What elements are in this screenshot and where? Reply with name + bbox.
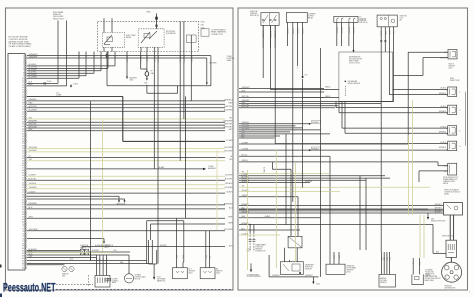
- svg-text:BLK/YEL: BLK/YEL: [145, 56, 147, 63]
- svg-text:BLK: BLK: [84, 56, 86, 59]
- arrow terminal: [126, 77, 128, 80]
- speed sensor shield dash: [344, 86, 346, 97]
- svg-text:BRN/RED: BRN/RED: [29, 203, 38, 205]
- svg-text:WITH SENSOR FOR: WITH SENSOR FOR: [443, 177, 459, 179]
- svg-text:SENSOR: SENSOR: [216, 270, 223, 272]
- fuel injector 4: [448, 141, 457, 150]
- svg-text:BRN/BLU: BRN/BLU: [242, 204, 250, 206]
- svg-text:WHT/YEL: WHT/YEL: [242, 96, 250, 98]
- svg-text:IGNITION/: IGNITION/: [359, 18, 367, 20]
- svg-text:TO MFI: TO MFI: [208, 166, 214, 168]
- wires to right edge group1: [27, 99, 234, 111]
- right page bus group1: [239, 87, 324, 98]
- svg-text:BLK/YEL: BLK/YEL: [182, 56, 184, 63]
- svg-text:WHT/GRY: WHT/GRY: [224, 126, 234, 128]
- svg-text:COIL: COIL: [400, 18, 404, 20]
- iat feeds: [239, 161, 438, 163]
- svg-text:LIL: LIL: [412, 262, 414, 264]
- svg-text:YEL: YEL: [208, 256, 210, 259]
- svg-text:BLK/YEL: BLK/YEL: [139, 56, 141, 63]
- bus single 144: [239, 143, 408, 145]
- ECM pins: [22, 55, 27, 270]
- top terminal box: [334, 16, 368, 46]
- svg-text:WHT/GRY: WHT/GRY: [29, 126, 39, 128]
- svg-text:LIL/WHT: LIL/WHT: [242, 142, 249, 144]
- dashed wire watermark area: [56, 284, 93, 286]
- yellow bottom wire: [27, 252, 111, 254]
- short row 224: [151, 223, 226, 225]
- svg-text:YEL/BLK: YEL/BLK: [225, 183, 233, 185]
- svg-text:RED: RED: [229, 103, 234, 105]
- power stage wires: [449, 215, 451, 240]
- svg-text:SEE POWER: SEE POWER: [349, 61, 360, 63]
- svg-text:GRY/GRN: GRY/GRN: [224, 229, 233, 231]
- ignition switch box: [261, 13, 279, 26]
- distributor feed: [450, 257, 452, 262]
- right page frame: [238, 8, 468, 290]
- svg-text:BLK/YEL: BLK/YEL: [29, 179, 37, 181]
- trunk vertical x210.9: [210, 56, 212, 86]
- svg-text:BRN/WHT: BRN/WHT: [29, 121, 39, 123]
- svg-text:BRN/RED: BRN/RED: [242, 181, 250, 183]
- svg-text:SUPPLY: SUPPLY: [308, 16, 315, 18]
- terminal arrow: [353, 46, 355, 50]
- svg-text:LIL/BLK: LIL/BLK: [29, 191, 36, 193]
- knock connector: [448, 50, 457, 59]
- svg-text:ECT: ECT: [189, 269, 192, 271]
- svg-text:SENSOR: SENSOR: [62, 274, 69, 276]
- svg-text:MOTOR: MOTOR: [135, 278, 141, 280]
- svg-text:INJECTORS: INJECTORS: [450, 80, 460, 82]
- supply relay box: [286, 13, 307, 23]
- svg-text:GRN/BLU: GRN/BLU: [224, 99, 233, 101]
- svg-text:SENSOR: SENSOR: [305, 269, 313, 271]
- svg-text:YEL/RED: YEL/RED: [29, 187, 38, 189]
- svg-text:ON AIR CONDITIONER): ON AIR CONDITIONER): [9, 45, 31, 48]
- svg-text:BRN: BRN: [175, 255, 177, 258]
- watermark line: [56, 288, 233, 290]
- svg-text:BRN: BRN: [120, 262, 123, 264]
- svg-text:BRN: BRN: [204, 255, 206, 258]
- wires to right edge group2: [27, 147, 234, 153]
- defogger wires: [57, 21, 59, 84]
- svg-text:LIL: LIL: [392, 31, 394, 33]
- svg-text:BLK/WHT: BLK/WHT: [160, 245, 167, 247]
- svg-text:ECM RELAY: ECM RELAY: [166, 32, 177, 35]
- svg-text:IGNITION: IGNITION: [445, 285, 453, 287]
- wires mid group: [27, 117, 234, 131]
- svg-text:BLK/YEL: BLK/YEL: [126, 56, 128, 63]
- crank sensor verticals: [249, 225, 251, 233]
- coil drops: [380, 27, 382, 252]
- svg-text:GRN/LIL: GRN/LIL: [242, 160, 249, 162]
- trunk vertical x185.5: [185, 96, 187, 218]
- svg-text:KEYLESS ENTRY,: KEYLESS ENTRY,: [349, 59, 363, 61]
- svg-text:BLK/LIL: BLK/LIL: [380, 31, 382, 37]
- svg-text:88: 88: [22, 268, 24, 270]
- svg-text:GRN/YEL: GRN/YEL: [335, 27, 337, 34]
- svg-text:RELAY: RELAY: [126, 36, 132, 39]
- svg-text:SWITCH (D): SWITCH (D): [250, 15, 259, 17]
- svg-text:S130: S130: [201, 21, 205, 23]
- right page bus groupA: [239, 100, 394, 108]
- svg-text:WIRES): WIRES): [425, 275, 431, 277]
- ignition distributor: [425, 262, 462, 289]
- sensor box 2: [200, 268, 215, 279]
- svg-text:WHT: WHT: [242, 216, 246, 218]
- svg-text:S: S: [297, 68, 298, 70]
- svg-text:POSITION: POSITION: [255, 247, 263, 249]
- svg-text:BLK/YEL: BLK/YEL: [225, 179, 233, 181]
- right page bus group5: [239, 195, 428, 213]
- svg-text:LT GRN: LT GRN: [226, 140, 233, 142]
- svg-text:BLK/YEL: BLK/YEL: [291, 28, 293, 35]
- fuel injector 3: [448, 126, 457, 135]
- junction boxes: [80, 249, 84, 255]
- injector bracket: [465, 92, 467, 146]
- svg-text:RED: RED: [147, 11, 152, 13]
- o2 sensor box: [379, 274, 395, 287]
- svg-text:CONNECTOR: CONNECTOR: [211, 34, 223, 36]
- svg-text:HEAD: HEAD: [227, 59, 232, 62]
- right trunks: [262, 25, 264, 78]
- cam sensor connector: [288, 236, 302, 247]
- ignition switch drops: [262, 19, 277, 48]
- svg-text:YEL/RED: YEL/RED: [224, 187, 233, 189]
- svg-text:(J338): (J338): [444, 194, 449, 196]
- svg-text:GRY/WHT: GRY/WHT: [434, 204, 441, 206]
- svg-text:S131: S131: [201, 27, 205, 29]
- wire group pins to relay box: [27, 52, 218, 86]
- long bottom wire: [82, 246, 225, 248]
- svg-text:GRN/BLU: GRN/BLU: [29, 99, 38, 101]
- svg-text:BLU/LIL: BLU/LIL: [242, 155, 248, 157]
- svg-text:BLU: BLU: [29, 207, 33, 209]
- svg-text:G28 ENGINE: G28 ENGINE: [348, 81, 358, 83]
- label to instrument: [201, 29, 209, 36]
- svg-text:BLU: BLU: [229, 207, 233, 209]
- left edge mark: [0, 265, 2, 268]
- inj1 top feed: [393, 88, 448, 90]
- svg-text:BLU/WHT: BLU/WHT: [29, 110, 38, 112]
- svg-text:BLK/YEL: BLK/YEL: [301, 28, 303, 35]
- ECM connector J220: [8, 54, 25, 271]
- svg-text:YEL/WHT: YEL/WHT: [29, 150, 38, 152]
- svg-text:LIL: LIL: [230, 156, 233, 158]
- svg-text:SHIELD: SHIELD: [325, 87, 331, 89]
- wires to right edge group3: [27, 156, 233, 162]
- svg-text:SENSOR GROUND: SENSOR GROUND: [431, 220, 446, 222]
- svg-text:CONTROL: CONTROL: [112, 280, 119, 282]
- svg-text:SENSOR: SENSOR: [255, 249, 263, 251]
- svg-text:WHT: WHT: [338, 255, 340, 258]
- svg-text:YEL: YEL: [229, 159, 233, 161]
- see-note arrow lower: [27, 238, 104, 240]
- svg-text:GRY/WHT: GRY/WHT: [434, 211, 441, 213]
- svg-text:BLK/YEL: BLK/YEL: [179, 56, 181, 63]
- isc motor circle: [124, 274, 133, 283]
- svg-text:WHT/YEL: WHT/YEL: [29, 106, 37, 108]
- throttle body connector: [95, 255, 119, 287]
- svg-text:GRN/WHT: GRN/WHT: [242, 87, 250, 89]
- svg-text:BRN/BLU: BRN/BLU: [242, 223, 250, 225]
- ignition coil box: [377, 15, 397, 27]
- svg-text:GRN/YEL: GRN/YEL: [347, 27, 349, 34]
- wires to right edge group5: [27, 203, 233, 209]
- svg-text:BLU/BRN: BLU/BRN: [29, 77, 38, 79]
- right page bus group4: [239, 172, 430, 192]
- svg-text:G102: G102: [316, 284, 320, 286]
- bottom sensor box: [326, 264, 345, 274]
- svg-text:IGNITION/: IGNITION/: [250, 11, 258, 13]
- svg-text:GRN: GRN: [333, 255, 335, 258]
- svg-text:LIL: LIL: [29, 156, 32, 158]
- svg-text:BLK: BLK: [77, 56, 79, 59]
- svg-text:GRY/WHT: GRY/WHT: [242, 211, 250, 213]
- svg-text:BLK: BLK: [113, 56, 115, 59]
- ground arrow G101: [148, 240, 150, 264]
- svg-text:BRN/RED: BRN/RED: [224, 203, 233, 205]
- bottom feed loop: [147, 220, 184, 222]
- svg-text:GRN: GRN: [182, 255, 184, 258]
- svg-text:SHIELD: SHIELD: [325, 96, 331, 98]
- svg-text:(G70): (G70): [347, 272, 352, 274]
- knock wire: [408, 51, 448, 53]
- inj1 bottom feed: [389, 94, 447, 96]
- svg-text:LIL/WHT: LIL/WHT: [225, 175, 233, 177]
- wires to defogger option: [27, 81, 78, 97]
- power stage box: [446, 240, 457, 257]
- speed sensor box: [339, 52, 393, 101]
- comb feeds: [335, 101, 337, 107]
- svg-text:SPEED SENSOR: SPEED SENSOR: [348, 83, 361, 85]
- svg-text:(G61): (G61): [449, 67, 453, 69]
- svg-text:POSITION SENSOR: POSITION SENSOR: [247, 276, 262, 278]
- pump loop wires: [107, 85, 211, 87]
- throttle module wires: [428, 204, 444, 214]
- fuel injector 1: [448, 87, 457, 96]
- svg-text:WHT/YEL: WHT/YEL: [224, 106, 232, 108]
- corner mark: [0, 294, 2, 297]
- svg-text:G69: G69: [431, 218, 434, 220]
- svg-text:OXYGEN: OXYGEN: [380, 280, 388, 282]
- svg-text:GRN/WHT: GRN/WHT: [305, 275, 313, 277]
- svg-text:BRN/WHT: BRN/WHT: [224, 121, 234, 123]
- svg-text:DOOR LOCKS: DOOR LOCKS: [349, 63, 360, 65]
- svg-text:GRN: GRN: [383, 257, 385, 260]
- svg-text:YEL: YEL: [29, 159, 33, 161]
- svg-text:GRY/WHT: GRY/WHT: [434, 208, 441, 210]
- svg-text:BRN: BRN: [229, 222, 234, 224]
- svg-text:LIL/WHT: LIL/WHT: [29, 175, 37, 177]
- svg-text:BLK: BLK: [92, 56, 94, 59]
- inj4 bottom feed: [239, 149, 448, 151]
- trunk vertical yellow: [102, 120, 104, 252]
- relay dashed box: [98, 11, 199, 51]
- svg-text:Peessauto.NET: Peessauto.NET: [3, 281, 56, 295]
- svg-text:BLK/YEL: BLK/YEL: [262, 167, 264, 173]
- svg-text:SENSOR: SENSOR: [347, 270, 355, 272]
- dark trunk wire: [123, 140, 225, 142]
- sensor box 1: [173, 268, 188, 279]
- svg-text:YEL/BLU: YEL/BLU: [242, 190, 250, 192]
- svg-text:CURRENT: CURRENT: [308, 14, 316, 16]
- svg-text:KNOCK: KNOCK: [449, 64, 454, 66]
- note arrow wires: [27, 195, 119, 197]
- svg-text:GRN/WHT: GRN/WHT: [272, 275, 280, 277]
- svg-text:S27: S27: [305, 75, 308, 77]
- supply relay drops: [286, 22, 307, 78]
- svg-text:GRN: GRN: [388, 257, 390, 260]
- svg-text:GRN/WHT: GRN/WHT: [29, 56, 39, 58]
- svg-text:GRY/YEL: GRY/YEL: [29, 123, 37, 125]
- svg-text:RED: RED: [29, 103, 34, 105]
- svg-text:GRN/YEL: GRN/YEL: [340, 27, 342, 34]
- throttle module ground: [427, 213, 429, 217]
- round connectors: [62, 266, 67, 271]
- left page frame: [6, 8, 234, 290]
- svg-text:BLK: BLK: [99, 56, 101, 59]
- cam sensor box: [281, 262, 304, 275]
- svg-text:BLK/YEL: BLK/YEL: [153, 56, 155, 63]
- svg-text:BLU/WHT: BLU/WHT: [224, 110, 233, 112]
- svg-text:SENSOR: SENSOR: [449, 65, 456, 67]
- svg-text:(G42): (G42): [216, 272, 220, 274]
- o2 sensor wires: [380, 252, 390, 274]
- svg-text:POSITION: POSITION: [305, 267, 313, 269]
- svg-text:BLK/YEL: BLK/YEL: [296, 28, 298, 35]
- svg-text:RELAY ONLY: RELAY ONLY: [53, 17, 65, 20]
- inj4 top feed: [275, 143, 448, 145]
- yellow trunks right: [408, 135, 410, 215]
- bus single 156: [239, 155, 330, 157]
- svg-text:G101: G101: [157, 277, 161, 279]
- svg-text:GRY: GRY: [418, 262, 420, 265]
- stage side verticals: [359, 176, 361, 250]
- svg-text:YEL: YEL: [242, 186, 245, 188]
- svg-text:DISTRIBUTOR: DISTRIBUTOR: [445, 287, 457, 289]
- svg-text:BLK/YEL: BLK/YEL: [190, 56, 192, 63]
- relay box drop wires: [107, 52, 192, 264]
- svg-text:IGNITION COIL: IGNITION COIL: [442, 235, 453, 237]
- svg-text:BLK/YEL: BLK/YEL: [157, 56, 159, 63]
- svg-text:GRN/YEL: GRN/YEL: [352, 27, 354, 34]
- svg-text:YEL: YEL: [229, 117, 233, 119]
- svg-text:CONNECTOR: CONNECTOR: [255, 251, 266, 253]
- wires bottom group: [27, 249, 129, 265]
- svg-text:BLU/WHT: BLU/WHT: [242, 106, 250, 108]
- svg-text:S28: S28: [144, 82, 147, 84]
- svg-text:(G62): (G62): [189, 272, 193, 274]
- svg-text:BRN/BLU: BRN/BLU: [439, 147, 447, 149]
- trunk vertical x90.5: [90, 101, 92, 261]
- wires to right edge group4: [27, 175, 234, 194]
- svg-text:YEL/GRN: YEL/GRN: [29, 147, 38, 149]
- svg-text:GRN: GRN: [385, 257, 387, 260]
- svg-text:BLK/WHT: BLK/WHT: [95, 245, 102, 247]
- throttle module box: [444, 203, 463, 216]
- svg-text:BRN/RED: BRN/RED: [305, 181, 313, 183]
- svg-text:YEL/GRN: YEL/GRN: [224, 147, 233, 149]
- right page bus groupB: [239, 121, 330, 139]
- svg-text:GRN: GRN: [380, 257, 382, 260]
- iat connector: [448, 163, 457, 175]
- wires to right edge group6: [27, 217, 234, 232]
- svg-text:YEL/BLK: YEL/BLK: [29, 183, 37, 185]
- svg-text:SENSOR: SENSOR: [189, 270, 196, 272]
- cam wires: [284, 248, 286, 262]
- svg-text:BLK: BLK: [70, 259, 73, 261]
- svg-text:GRY/YEL: GRY/YEL: [224, 124, 232, 126]
- svg-text:GRY/GRN: GRY/GRN: [29, 229, 38, 231]
- pump symbol: [141, 68, 147, 70]
- crank sensor wires: [249, 233, 251, 252]
- svg-text:GRY/WHT: GRY/WHT: [434, 209, 441, 211]
- svg-text:LIL/GRN: LIL/GRN: [242, 148, 249, 150]
- svg-text:WITH REMOTE: WITH REMOTE: [349, 57, 360, 59]
- svg-text:IGNITION: IGNITION: [400, 16, 408, 18]
- svg-text:SENSOR: SENSOR: [380, 282, 388, 284]
- svg-text:BLK/YEL: BLK/YEL: [286, 28, 288, 35]
- evap hatch: [415, 277, 420, 280]
- bottom bus wires: [27, 260, 147, 262]
- evap valve: [412, 274, 423, 284]
- svg-text:T10k/5: T10k/5: [47, 81, 52, 83]
- svg-text:BRN: BRN: [29, 84, 34, 86]
- svg-text:LIL/BLK: LIL/BLK: [226, 192, 233, 194]
- svg-text:BLK/WHT: BLK/WHT: [92, 250, 99, 252]
- svg-text:SWITCH (D): SWITCH (D): [359, 22, 368, 24]
- right page bus group6: [239, 215, 433, 235]
- speed sensor G28: [345, 81, 347, 83]
- fuel injector 2: [448, 105, 457, 114]
- svg-text:YEL/WHT: YEL/WHT: [224, 150, 233, 152]
- arrow to harness: [27, 168, 203, 170]
- svg-text:T10k/6: T10k/6: [73, 83, 78, 85]
- svg-text:YEL: YEL: [29, 117, 33, 119]
